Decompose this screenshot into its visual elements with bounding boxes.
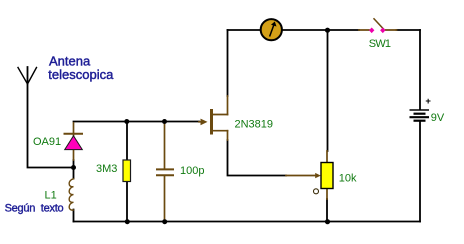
svg-text:L1: L1: [45, 190, 57, 202]
svg-text:Según texto: Según texto: [5, 203, 64, 215]
svg-text:10k: 10k: [339, 173, 357, 185]
svg-text:3M3: 3M3: [96, 163, 117, 175]
svg-text:100p: 100p: [180, 165, 204, 177]
svg-text:2N3819: 2N3819: [235, 118, 274, 130]
svg-text:SW1: SW1: [369, 38, 391, 50]
svg-text:OA91: OA91: [33, 136, 61, 148]
svg-text:+: +: [425, 96, 431, 107]
svg-text:telescopica: telescopica: [48, 67, 114, 82]
svg-text:9V: 9V: [431, 112, 445, 124]
